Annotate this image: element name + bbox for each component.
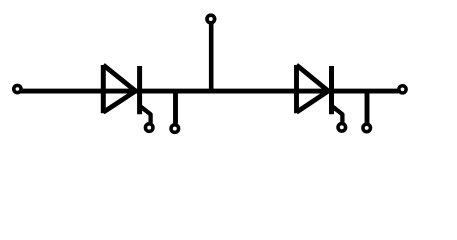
wire main AC bus (left terminal to right terminal) <box>21 89 399 94</box>
wire V1 gate lead <box>140 106 151 123</box>
terminal 1 (left main terminal) <box>14 85 21 92</box>
wire V2 gate lead <box>332 106 343 123</box>
thyristor V1 cathode bar <box>137 66 142 114</box>
thyristor V2 anode triangle <box>297 65 329 113</box>
wire V2 auxiliary cathode lead <box>365 91 370 124</box>
wire center tap vertical <box>209 23 214 91</box>
thyristor V2 cathode bar <box>329 66 334 114</box>
terminal V2 auxiliary cathode <box>363 124 371 131</box>
terminal V1 auxiliary cathode <box>171 125 179 133</box>
terminal V2 gate <box>338 124 346 132</box>
wire V1 auxiliary cathode lead <box>173 91 178 124</box>
terminal 2 (right main terminal) <box>399 86 406 93</box>
terminal 3 (top center-tap terminal) <box>207 15 215 23</box>
terminal V1 gate <box>145 124 153 132</box>
thyristor V1 anode triangle <box>103 65 135 113</box>
